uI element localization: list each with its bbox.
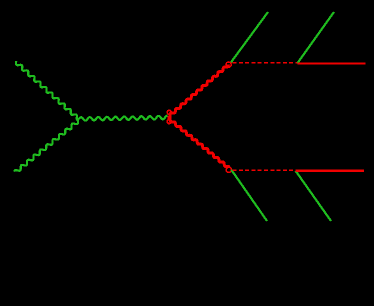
wire: green solid outgoing line from bottom vertex 2 xyxy=(296,171,332,221)
wire: incoming green wavy line upper-left xyxy=(16,61,79,120)
node: loop at lower end of upper red branch xyxy=(167,110,171,114)
node: loop at lower end of lower red branch xyxy=(226,167,231,172)
wire: green solid outgoing line from top vertex 2 xyxy=(297,12,334,63)
wire: incoming green wavy line lower-left xyxy=(14,119,78,172)
node: loop at upper end of upper red branch xyxy=(226,62,231,67)
wire: horizontal green wavy propagator xyxy=(79,116,167,121)
wire: red wavy branch down-right xyxy=(168,117,230,167)
wire: red solid line bottom xyxy=(296,170,365,172)
wire: green solid outgoing line from top vertex 1 xyxy=(231,12,268,62)
node: loop at upper end of lower red branch xyxy=(167,120,171,124)
wire: red wavy branch up-right xyxy=(168,64,229,117)
wire: red solid line top xyxy=(297,62,365,64)
wire: green solid outgoing line from bottom vertex 1 xyxy=(231,170,267,221)
wire: red dashed line top xyxy=(233,62,298,64)
wire: red dashed line bottom xyxy=(233,169,296,171)
